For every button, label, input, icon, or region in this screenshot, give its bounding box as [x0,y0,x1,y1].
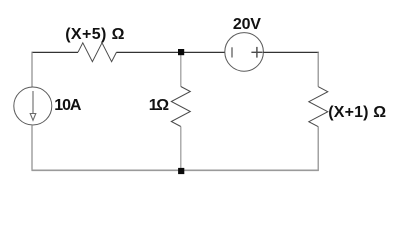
current source I1 10A circle [14,87,52,125]
wire middle vertical upper (top junction to R2) [180,52,182,86]
svg-text:1Ω: 1Ω [149,97,170,114]
voltage source plus terminal [251,51,262,53]
svg-text:(X+1) Ω: (X+1) Ω [328,104,386,121]
wire R1 to top junction and on to voltage source [116,51,225,53]
svg-text:20V: 20V [233,16,261,33]
resistor 1 ohm zigzag R2 [171,87,190,127]
wire right vertical upper (top-right corner to R3) [317,52,319,87]
voltage source U1 20V circle [225,33,264,72]
current source arrowhead (open) [30,114,36,121]
wire left vertical upper (corner to current source) [31,52,33,87]
current source arrow shaft [32,91,34,113]
wire top-left horizontal (corner to R1) [32,51,79,53]
wire right vertical lower (R3 to bottom-right corner) [317,127,319,171]
node top junction (black square) [178,49,184,55]
wire voltage source to top-right corner [263,51,319,53]
wire left vertical lower (current source to bottom corner) [31,125,33,171]
node bottom junction (black square) [178,168,184,174]
voltage source minus terminal bar [231,47,233,57]
resistor (X+5) ohm zigzag [78,43,116,62]
wire middle vertical lower (R2 to bottom junction) [180,127,182,171]
wire bottom horizontal [32,169,319,171]
svg-text:10A: 10A [54,97,82,114]
resistor (X+1) ohm zigzag R3 [309,87,328,127]
svg-text:(X+5) Ω: (X+5) Ω [65,26,125,43]
